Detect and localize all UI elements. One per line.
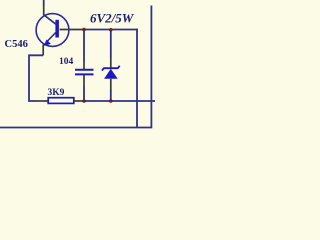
wire right outer vertical bbox=[150, 6, 152, 128]
svg-text:3K9: 3K9 bbox=[48, 88, 65, 98]
junction node mid cap bbox=[82, 99, 86, 103]
pin right bbox=[74, 100, 84, 102]
junction node top diode bbox=[109, 28, 113, 32]
wire mid rail bbox=[84, 100, 155, 102]
svg-text:104: 104 bbox=[59, 57, 74, 67]
pin left bbox=[36, 100, 49, 102]
pin top bbox=[83, 61, 85, 70]
wire bottom lead bbox=[83, 85, 85, 101]
wire top lead bbox=[83, 30, 85, 62]
transistor Q1 C546 bbox=[36, 6, 83, 55]
resistor R1 3K9 bbox=[36, 98, 85, 104]
wire bottom lead bbox=[110, 89, 112, 101]
wire base to corner bbox=[83, 29, 138, 31]
plate bottom bbox=[75, 73, 94, 75]
pin bottom bbox=[110, 79, 112, 89]
body bbox=[48, 98, 74, 104]
junction node mid diode bbox=[109, 99, 113, 103]
emitter pin bbox=[42, 45, 44, 56]
svg-text:C546: C546 bbox=[5, 39, 28, 50]
plate top bbox=[75, 69, 94, 71]
capacitor C1 104 bbox=[75, 30, 94, 102]
collector pin bbox=[43, 6, 45, 15]
zener diode D1 bbox=[102, 30, 120, 102]
junction node base/cap bbox=[82, 28, 86, 32]
wire top lead bbox=[110, 30, 112, 59]
base pin bbox=[60, 29, 83, 31]
pin bottom bbox=[83, 74, 85, 85]
wire right inner vertical bbox=[136, 29, 138, 128]
anode triangle bbox=[104, 69, 118, 79]
wire emitter path bbox=[29, 55, 43, 101]
wire collector from top edge bbox=[43, 0, 45, 6]
cathode bar with zener wings bbox=[102, 66, 120, 71]
svg-text:6V2/5W: 6V2/5W bbox=[90, 11, 135, 26]
pin top bbox=[110, 58, 112, 68]
wire bottom rail bbox=[0, 127, 152, 129]
